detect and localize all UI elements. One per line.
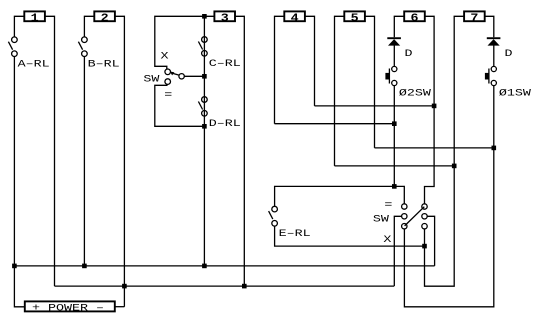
load box 5 bbox=[344, 11, 365, 21]
diode D (column 7) triangle bbox=[488, 39, 500, 46]
selector SW1 wiper arm bbox=[173, 73, 179, 75]
contact switch B-RL top circle bbox=[82, 37, 88, 43]
wire box3 right lead bbox=[235, 16, 244, 286]
wire B-RL to plus bus bbox=[83, 57, 85, 266]
wire box6 right lead bbox=[425, 16, 435, 204]
contact switch D-RL bottom circle bbox=[202, 111, 208, 117]
selector SW1 = contact circle bbox=[165, 79, 171, 85]
contact switch A-RL top circle bbox=[12, 37, 18, 43]
selector SW2 right middle circle bbox=[422, 214, 427, 219]
junction line3 at 01SW chain bbox=[492, 146, 497, 151]
junction plus bus at A-RL bbox=[12, 264, 17, 269]
wire SW2 right middle to plus bus end bbox=[427, 216, 434, 266]
junction SW1 pole node bbox=[202, 74, 207, 79]
junction E bottom node at right-bottom chain bbox=[422, 244, 427, 249]
svg-text:X: X bbox=[383, 233, 391, 245]
pushbutton 01SW actuator line bbox=[488, 69, 490, 84]
pushbutton 02SW bottom circle bbox=[392, 80, 397, 85]
junction E top node at 02SW chain bbox=[392, 184, 397, 189]
wire 01SW chain down around to selector X contact bbox=[404, 86, 493, 307]
wire power minus stub bbox=[115, 306, 125, 308]
svg-text:X: X bbox=[160, 50, 168, 62]
diode D (column 7) cathode bar bbox=[487, 37, 501, 39]
selector SW2 right top circle bbox=[422, 204, 427, 209]
wire SW1 pole to C-D node bbox=[184, 75, 204, 77]
pushbutton 01SW top circle bbox=[491, 66, 496, 71]
wire line3 box5 right to 01SW chain bbox=[375, 147, 494, 149]
svg-text:3: 3 bbox=[221, 12, 229, 25]
wire plus bus bbox=[14, 265, 434, 267]
wire box6 left lead to diode bbox=[394, 16, 404, 37]
contact switch E-RL blade bbox=[269, 211, 273, 219]
svg-text:SW: SW bbox=[143, 73, 160, 85]
wire box7 left lead down and around to selector right-bottom contact bbox=[425, 16, 465, 286]
contact switch B-RL blade bbox=[78, 42, 82, 50]
svg-text:5: 5 bbox=[351, 12, 359, 25]
contact switch B-RL bottom circle bbox=[82, 51, 88, 57]
svg-text:D–RL: D–RL bbox=[209, 118, 241, 130]
wire box3 feed line to selector X contact bbox=[155, 16, 215, 69]
selector SW2 pole circle (left middle) bbox=[402, 214, 407, 219]
svg-text:=: = bbox=[164, 89, 172, 101]
wire A-RL to plus bus and power bbox=[14, 57, 24, 307]
wire box4 right lead down to line1 bbox=[305, 16, 315, 106]
wire line2 box4 left to 02SW chain bbox=[275, 123, 395, 125]
wire box5 left lead down to line4 bbox=[335, 16, 345, 166]
diode D (column 6) triangle bbox=[388, 39, 400, 46]
pushbutton 01SW bottom circle bbox=[491, 80, 496, 85]
wire box7 right lead to diode bbox=[485, 16, 494, 37]
selector SW1 pole circle bbox=[179, 74, 184, 79]
svg-text:Ø2SW: Ø2SW bbox=[399, 87, 432, 99]
svg-text:+ POWER –: + POWER – bbox=[32, 302, 104, 314]
wire SW1 = contact to D node bbox=[155, 84, 205, 126]
contact switch A-RL bottom circle bbox=[12, 51, 18, 57]
wire minus bus bbox=[55, 285, 395, 287]
selector SW2 = contact circle (left top) bbox=[402, 204, 407, 209]
contact switch C-RL blade bbox=[198, 42, 202, 50]
load box 6 bbox=[404, 11, 425, 21]
contact switch C-RL bottom circle bbox=[202, 51, 208, 57]
junction plus bus at C-D branch bbox=[202, 264, 207, 269]
wire E-RL top node line bbox=[275, 186, 405, 206]
pushbutton 02SW top circle bbox=[392, 66, 397, 71]
junction line1 at box6 right bbox=[432, 104, 437, 109]
junction plus bus at B-RL bbox=[82, 264, 87, 269]
wire line1 box4 right to box6 right bbox=[315, 105, 435, 107]
selector SW2 wiper arm diagonal bbox=[405, 207, 425, 226]
junction D node bbox=[202, 124, 207, 129]
contact switch D-RL top circle bbox=[202, 97, 208, 103]
svg-text:C–RL: C–RL bbox=[209, 58, 241, 70]
wire SW2 pole to minus bus bbox=[394, 216, 401, 286]
wire box4 left lead down to line2 bbox=[275, 16, 285, 123]
svg-text:SW: SW bbox=[373, 213, 390, 225]
wire C-D branch vertical bbox=[203, 16, 205, 266]
selector SW1 X contact circle bbox=[165, 69, 171, 75]
wire diode to pushbutton 01SW bbox=[493, 45, 495, 66]
load box 7 bbox=[464, 11, 485, 21]
wire box5 right lead down to line3 bbox=[365, 16, 375, 148]
power supply box bbox=[25, 301, 115, 311]
contact switch E-RL bottom circle bbox=[272, 221, 278, 227]
selector SW2 X contact circle (left bottom) bbox=[402, 224, 407, 229]
svg-text:D: D bbox=[504, 48, 512, 60]
wire box1 right lead bbox=[45, 16, 55, 286]
junction box3 feed bbox=[202, 14, 207, 19]
svg-text:E–RL: E–RL bbox=[279, 227, 311, 239]
junction minus bus at box2 right bbox=[122, 284, 127, 289]
junction line4 at box7 left bbox=[452, 164, 457, 169]
selector SW1 wiper arrowhead bbox=[170, 71, 175, 75]
pushbutton 02SW actuator bar bbox=[385, 73, 389, 80]
svg-text:Ø1SW: Ø1SW bbox=[499, 87, 532, 99]
wire box2 left lead bbox=[84, 16, 94, 37]
svg-text:D: D bbox=[404, 48, 412, 60]
load box 4 bbox=[284, 11, 305, 21]
wire 02SW chain down to E-node line bbox=[393, 86, 395, 187]
diode D (column 6) cathode bar bbox=[387, 37, 401, 39]
contact switch D-RL blade bbox=[198, 102, 202, 110]
pushbutton 01SW actuator bar bbox=[485, 73, 489, 80]
svg-text:4: 4 bbox=[291, 12, 300, 25]
load box 3 bbox=[214, 11, 235, 21]
contact switch A-RL blade bbox=[8, 42, 12, 50]
pushbutton 02SW actuator line bbox=[388, 69, 390, 84]
wire E-RL bottom to selector right-bottom chain bbox=[275, 226, 425, 246]
wire box1 left lead bbox=[14, 16, 24, 37]
junction line2 at 02SW chain bbox=[392, 121, 397, 126]
wire diode to pushbutton 02SW bbox=[393, 45, 395, 66]
svg-text:6: 6 bbox=[411, 12, 419, 25]
svg-text:1: 1 bbox=[31, 12, 39, 25]
contact switch E-RL top circle bbox=[272, 206, 278, 212]
svg-text:=: = bbox=[384, 199, 392, 211]
svg-text:7: 7 bbox=[470, 12, 478, 25]
load box 1 bbox=[24, 11, 45, 21]
load box 2 bbox=[94, 11, 115, 21]
svg-text:A–RL: A–RL bbox=[18, 58, 50, 70]
wire box2 right lead bbox=[115, 16, 125, 306]
selector SW2 right bottom circle bbox=[422, 224, 427, 229]
svg-text:B–RL: B–RL bbox=[88, 58, 120, 70]
wire line4 box5 left to box7 left bbox=[335, 165, 455, 167]
contact switch C-RL top circle bbox=[202, 37, 208, 43]
junction minus bus at box3 right bbox=[242, 284, 247, 289]
svg-text:2: 2 bbox=[101, 12, 109, 25]
